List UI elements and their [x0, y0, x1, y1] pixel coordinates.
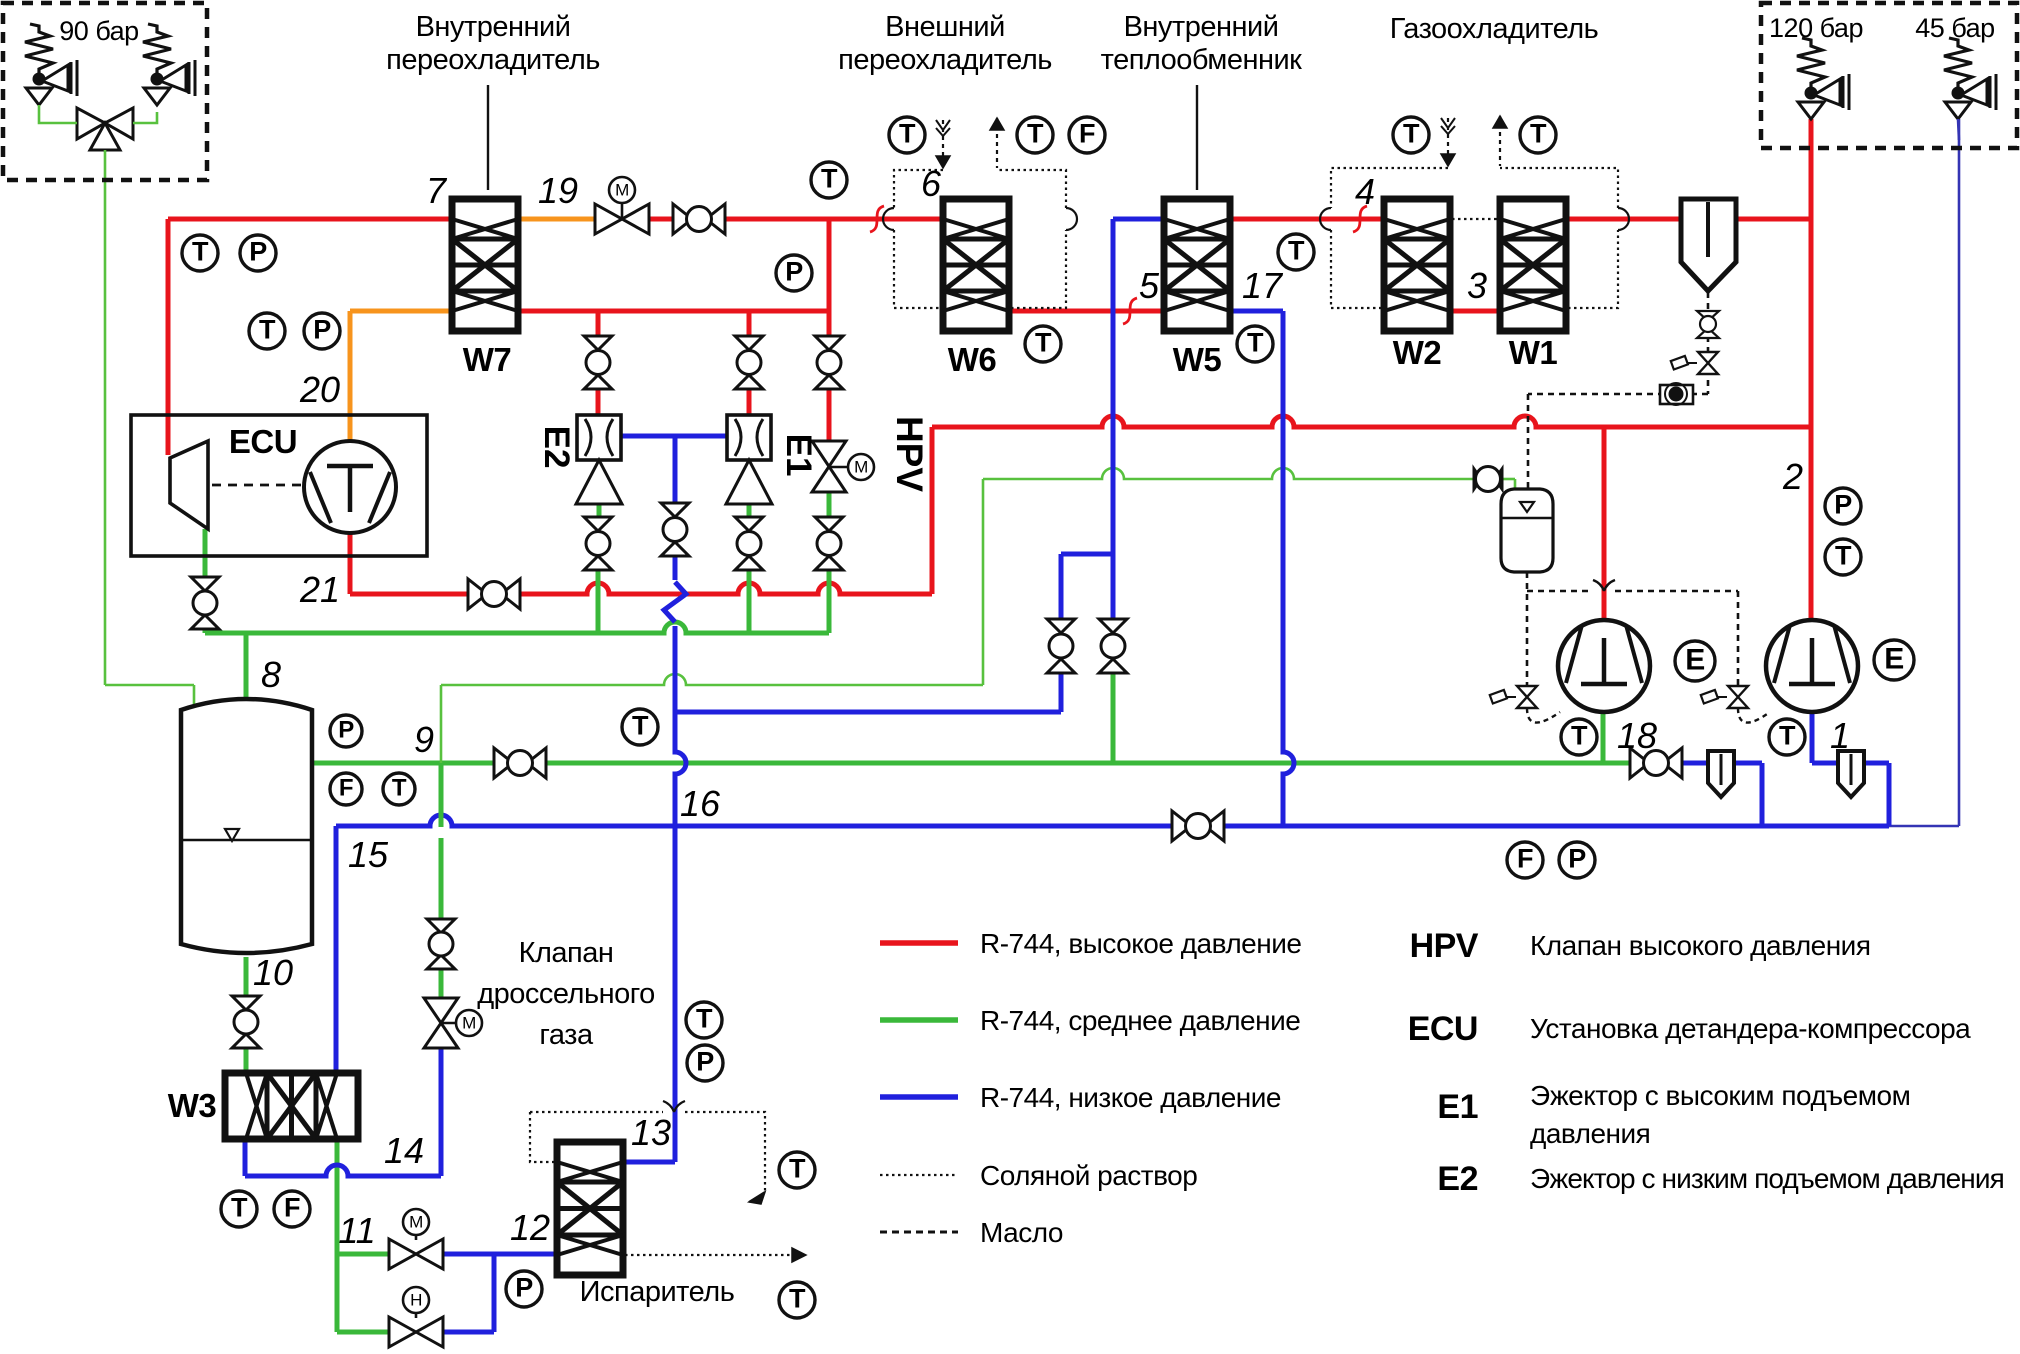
valve small thin-green to reservoir: [1474, 467, 1502, 492]
dashed box 90 bar: [3, 3, 207, 180]
svg-text:F: F: [284, 1193, 300, 1223]
wire blue 16 vertical: [623, 556, 686, 1162]
svg-text:P: P: [1568, 844, 1586, 874]
evaporator heat exchanger: [557, 1142, 623, 1275]
oil dashed to reservoir: [1527, 394, 1530, 492]
svg-text:газа: газа: [539, 1019, 594, 1051]
svg-text:P: P: [1834, 490, 1852, 520]
svg-text:T: T: [1779, 721, 1796, 751]
valve ball above HPV: [815, 336, 843, 389]
svg-text:T: T: [192, 237, 209, 267]
svg-text:E: E: [1884, 642, 1904, 675]
wire red 21 from ECU: [350, 427, 932, 594]
svg-text:M: M: [854, 458, 868, 477]
instrument T F W6 brine right: [1017, 117, 1105, 153]
instrument F P suction main: [1507, 842, 1595, 878]
valve ball below E1: [735, 517, 763, 570]
brine dotted evaporator inlet: [530, 1101, 765, 1204]
node 12: [510, 1207, 550, 1248]
instrument T P node 20: [249, 313, 340, 349]
instrument P riser: [776, 255, 812, 291]
wire blue 15 to W3: [334, 826, 339, 1073]
label W2: [1393, 334, 1442, 371]
wire green medium main y=633: [205, 622, 829, 633]
svg-text:E1: E1: [1437, 1088, 1478, 1126]
wire blue compressor 18 filter line: [1682, 763, 1762, 826]
svg-text:M: M: [615, 181, 629, 200]
wire red main high pressure y=427: [932, 416, 1811, 427]
svg-text:E2: E2: [1437, 1160, 1478, 1198]
title Внутренний переохладитель: [386, 11, 600, 190]
instrument T W5 right: [1278, 234, 1314, 270]
relief valve 45 bar: [1944, 38, 1996, 119]
valve ball x1061: [1047, 619, 1075, 673]
oil needle valve upper: [1671, 352, 1718, 374]
valve globe suction main: [1172, 811, 1224, 841]
svg-text:W7: W7: [463, 341, 512, 378]
svg-text:T: T: [1571, 721, 1588, 751]
svg-text:Клапан: Клапан: [519, 937, 614, 969]
legend green sample: [880, 1005, 1300, 1036]
svg-text:переохладитель: переохладитель: [386, 44, 600, 76]
brine dotted between W2 and W1: [1452, 218, 1499, 220]
svg-text:T: T: [1027, 119, 1044, 149]
legend brine sample: [880, 1160, 1197, 1191]
wire green W3 to expansion valves 11: [337, 1139, 390, 1332]
svg-text:15: 15: [348, 834, 389, 875]
svg-text:19: 19: [538, 170, 578, 211]
svg-text:T: T: [632, 711, 649, 741]
svg-text:Газоохладитель: Газоохладитель: [1390, 13, 1599, 45]
node 14: [384, 1130, 424, 1171]
svg-text:P: P: [249, 237, 267, 267]
svg-text:M: M: [462, 1014, 476, 1033]
svg-text:R-744, низкое давление: R-744, низкое давление: [980, 1082, 1281, 1113]
brine arrow into gas cooler: [1441, 118, 1455, 166]
node 4: [1355, 171, 1375, 212]
title Испаритель: [580, 1276, 735, 1308]
instrument T line 16: [622, 709, 658, 745]
svg-text:4: 4: [1355, 171, 1375, 212]
wire green below valve x1113: [1111, 673, 1116, 763]
valve hand H 11: [389, 1287, 443, 1347]
svg-text:R-744, высокое давление: R-744, высокое давление: [980, 928, 1301, 959]
suction filter compressor 1: [1838, 751, 1864, 797]
legend oil sample: [880, 1217, 1063, 1248]
wire blue thin 45 bar relief line: [1889, 119, 1959, 826]
brine arrow into W6: [936, 120, 950, 168]
svg-text:T: T: [789, 1284, 806, 1314]
wire red compressor 18 discharge: [1602, 427, 1607, 620]
receiver tank 8: [181, 699, 312, 953]
node 11: [338, 1210, 375, 1251]
oil dashed into compressor 18: [1527, 708, 1560, 723]
svg-text:6: 6: [921, 163, 942, 204]
svg-text:14: 14: [384, 1130, 424, 1171]
valve globe line 9: [494, 748, 546, 778]
legend E2: [1437, 1160, 2003, 1198]
instrument T brine evaporator lower: [779, 1282, 815, 1318]
instrument T W5 below: [1237, 326, 1273, 362]
oil reservoir vessel: [1501, 489, 1553, 572]
svg-text:Внутренний: Внутренний: [1124, 11, 1279, 43]
instrument T gas cooler brine right: [1520, 117, 1556, 153]
instrument T brine evaporator upper: [779, 1152, 815, 1188]
svg-text:9: 9: [414, 719, 434, 760]
instrument T P line 13: [686, 1002, 723, 1081]
svg-text:H: H: [410, 1291, 422, 1310]
svg-text:T: T: [1835, 541, 1852, 571]
brine dotted loop around gas cooler W2 W1: [1320, 168, 1629, 308]
ejector E2: [576, 415, 622, 504]
instrument P evaporator inlet: [506, 1271, 542, 1307]
node 13: [631, 1112, 671, 1153]
heat exchanger W1: [1500, 199, 1566, 331]
oil dashed into compressor 1: [1738, 708, 1770, 723]
node 16: [680, 783, 721, 824]
relief valve 120 bar: [1797, 38, 1849, 119]
wire thin green oil return to reservoir: [441, 468, 1515, 763]
svg-text:Установка детандера-компрессор: Установка детандера-компрессора: [1530, 1013, 1971, 1044]
pipe break on red line 5: [1123, 298, 1137, 324]
instrument T on line 19: [811, 162, 847, 198]
valve ball blue x675: [661, 503, 689, 556]
heat exchanger W2: [1384, 199, 1450, 331]
valve globe before filter 18: [1630, 748, 1682, 778]
svg-text:Эжектор с высоким подъемом: Эжектор с высоким подъемом: [1530, 1080, 1910, 1111]
wire red riser E2: [596, 311, 601, 415]
node 10: [253, 952, 293, 993]
svg-text:P: P: [338, 717, 354, 744]
svg-text:W5: W5: [1173, 341, 1222, 378]
svg-text:W6: W6: [948, 341, 997, 378]
oil separator: [1681, 199, 1736, 291]
valve motor M on line 19: [595, 177, 649, 234]
oil small ball valve: [1697, 311, 1719, 338]
svg-text:P: P: [696, 1047, 714, 1077]
svg-text:120 бар: 120 бар: [1769, 13, 1863, 43]
svg-text:F: F: [339, 775, 353, 802]
svg-text:T: T: [1247, 328, 1264, 358]
label 90 bar: [59, 16, 138, 46]
wire green HPV outlet: [827, 492, 832, 633]
svg-text:10: 10: [253, 952, 293, 993]
oil level regulator: [1660, 383, 1693, 405]
wire green 9 branch to throttle: [439, 763, 444, 998]
svg-text:P: P: [515, 1273, 533, 1303]
svg-text:3: 3: [1467, 265, 1487, 306]
svg-text:7: 7: [426, 170, 448, 211]
svg-text:переохладитель: переохладитель: [838, 44, 1052, 76]
node 5: [1139, 265, 1160, 306]
svg-text:21: 21: [299, 569, 340, 610]
wire green ECU expander outlet: [203, 529, 208, 633]
svg-text:T: T: [1530, 119, 1547, 149]
svg-text:T: T: [259, 315, 276, 345]
wire green 10 tank bottom to W3: [244, 957, 249, 1073]
svg-text:P: P: [785, 257, 803, 287]
suction filter compressor 18: [1708, 751, 1734, 797]
svg-text:Внутренний: Внутренний: [416, 11, 571, 43]
svg-text:18: 18: [1617, 715, 1657, 756]
svg-text:W1: W1: [1509, 334, 1558, 371]
wire green E1 outlet: [747, 504, 752, 633]
svg-text:Клапан высокого давления: Клапан высокого давления: [1530, 930, 1871, 961]
svg-text:E1: E1: [779, 434, 818, 477]
svg-text:Соляной раствор: Соляной раствор: [980, 1160, 1197, 1191]
label E2 rotated: [537, 426, 576, 469]
ejector E1: [726, 415, 772, 504]
instrument T W6 brine left: [889, 117, 925, 153]
title Внешний переохладитель: [838, 11, 1052, 76]
pipe break on red line 19: [870, 206, 884, 232]
brine dotted loop around W6: [883, 170, 1077, 308]
valve ball tank bottom 10: [232, 996, 260, 1048]
svg-text:16: 16: [680, 783, 721, 824]
label W1: [1509, 334, 1558, 371]
oil dashed separator drain: [1528, 292, 1708, 394]
valve ball x1113: [1099, 619, 1127, 673]
relief valve 90 bar right: [143, 24, 195, 105]
wire red 3 W2 to W1: [1450, 309, 1501, 314]
wire red W7 bottom to HPV riser: [517, 219, 829, 311]
node 8: [261, 654, 281, 695]
svg-text:45 бар: 45 бар: [1915, 13, 1994, 43]
wire blue suction main y=826: [336, 815, 1889, 826]
svg-text:11: 11: [338, 1210, 375, 1251]
oil needle valve compressor 18: [1490, 686, 1537, 708]
svg-text:12: 12: [510, 1207, 550, 1248]
legend blue sample: [880, 1082, 1281, 1113]
label E1 rotated: [779, 434, 818, 477]
svg-text:E: E: [1685, 643, 1705, 676]
instrument T P upper left: [182, 235, 276, 271]
node 18: [1617, 715, 1657, 756]
svg-text:20: 20: [299, 369, 340, 410]
svg-text:T: T: [1288, 236, 1305, 266]
svg-text:Эжектор с низким подъемом давл: Эжектор с низким подъемом давления: [1530, 1163, 2004, 1194]
wire blue valve bypass x1061: [675, 554, 1113, 712]
oil dashed reservoir to compressors: [1527, 572, 1738, 686]
node 17: [1242, 265, 1284, 306]
wire blue 14 W3 to throttle valve: [245, 1048, 441, 1176]
instrument P tank: [330, 715, 362, 747]
label 45 bar: [1915, 13, 1994, 43]
wire green node 8 to tank: [244, 633, 249, 704]
legend E1: [1437, 1080, 1910, 1149]
svg-text:T: T: [1035, 328, 1052, 358]
label W6: [948, 341, 997, 378]
svg-text:T: T: [899, 119, 916, 149]
valve ball ECU green: [191, 577, 219, 629]
svg-text:Испаритель: Испаритель: [580, 1276, 735, 1308]
instrument T F W3: [221, 1191, 310, 1227]
svg-text:T: T: [392, 775, 407, 802]
node 19: [538, 170, 578, 211]
valve globe on line 19: [673, 204, 725, 234]
valve ball above E2: [584, 336, 612, 389]
wire green from 90 bar relief box: [105, 151, 194, 708]
node 9: [414, 719, 434, 760]
relief valve 90 bar left: [25, 24, 77, 105]
oil needle valve compressor 1: [1701, 686, 1748, 708]
instrument T gas cooler brine left: [1393, 117, 1429, 153]
svg-text:13: 13: [631, 1112, 671, 1153]
label ECU: [229, 423, 297, 460]
instrument T compressor 1: [1769, 719, 1805, 755]
wire red 5 W6 to W5: [1009, 309, 1164, 314]
wire red riser E1: [747, 311, 752, 415]
instrument E compressor 1: [1874, 640, 1914, 680]
svg-text:17: 17: [1242, 265, 1284, 306]
valve ball below HPV: [815, 517, 843, 570]
wire blue W5 top left: [1113, 219, 1164, 619]
node 1: [1830, 715, 1850, 756]
svg-text:HPV: HPV: [889, 416, 930, 492]
wire red vertical compressor 1 discharge / relief 120: [1809, 119, 1814, 620]
svg-text:8: 8: [261, 654, 281, 695]
node 2: [1782, 456, 1803, 497]
svg-text:F: F: [1517, 844, 1533, 874]
svg-text:давления: давления: [1530, 1118, 1650, 1149]
legend ECU: [1408, 1010, 1971, 1048]
three-way valve 90 bar: [39, 105, 157, 152]
label HPV rotated: [889, 416, 930, 492]
node 20: [299, 369, 340, 410]
dashed box 120 45 bar: [1761, 3, 2017, 148]
svg-text:T: T: [821, 164, 838, 194]
wire green 9 tank to compressor 18: [312, 761, 1630, 766]
node 15: [348, 834, 389, 875]
pipe break on red line 4: [1353, 206, 1367, 232]
wire blue 12 to evaporator: [441, 1254, 556, 1332]
svg-text:5: 5: [1139, 265, 1160, 306]
title Газоохладитель: [1390, 13, 1599, 45]
svg-text:T: T: [696, 1004, 713, 1034]
wire blue 17 W5 to suction main: [1231, 311, 1294, 826]
title Внутренний теплообменник: [1101, 11, 1303, 190]
wire blue ejector suction E2-E1: [621, 436, 726, 503]
svg-text:90 бар: 90 бар: [59, 16, 138, 46]
wire red riser HPV: [827, 311, 832, 441]
wire red W1 to oil separator to node 2 riser: [1566, 217, 1811, 222]
svg-text:Внешний: Внешний: [885, 11, 1005, 43]
instrument P T node 2: [1825, 488, 1861, 575]
svg-text:R-744, среднее давление: R-744, среднее давление: [980, 1005, 1300, 1036]
svg-text:T: T: [1403, 119, 1420, 149]
svg-text:1: 1: [1830, 715, 1850, 756]
label W5: [1173, 341, 1222, 378]
svg-text:дроссельного: дроссельного: [477, 978, 655, 1010]
wire red W7 feed from node 7 left: [168, 219, 453, 455]
wire orange 20 W7 to ECU: [350, 311, 453, 444]
instrument F T tank: [330, 773, 415, 805]
node 6: [921, 163, 942, 204]
valve HPV motorized: [812, 441, 874, 492]
compressor 1: [1766, 620, 1858, 712]
svg-text:T: T: [789, 1154, 806, 1184]
svg-text:теплообменник: теплообменник: [1101, 44, 1303, 76]
valve expansion M 11: [389, 1209, 443, 1269]
heat exchanger W3: [225, 1073, 358, 1139]
node 7: [426, 170, 448, 211]
wire green compressor 18 suction: [1601, 711, 1606, 763]
svg-text:P: P: [313, 315, 331, 345]
heat exchanger W7: [452, 199, 518, 331]
node 3: [1467, 265, 1487, 306]
ECU expander: [170, 441, 208, 529]
label W3: [168, 1087, 217, 1124]
valve globe line 21: [468, 579, 520, 609]
ECU compressor: [304, 441, 396, 533]
svg-text:Масло: Масло: [980, 1217, 1063, 1248]
label W7: [463, 341, 512, 378]
valve ball line 9 branch: [427, 919, 455, 969]
valve ball above E1: [735, 336, 763, 389]
valve ball below E2: [584, 517, 612, 570]
svg-text:W3: W3: [168, 1087, 217, 1124]
ECU shaft dashed: [212, 484, 302, 487]
label 120 bar: [1769, 13, 1863, 43]
legend red sample: [880, 928, 1301, 959]
heat exchanger W5: [1164, 199, 1230, 331]
svg-text:HPV: HPV: [1410, 927, 1479, 965]
legend HPV: [1410, 927, 1871, 965]
svg-text:2: 2: [1782, 456, 1803, 497]
title Клапан дроссельного газа: [477, 937, 655, 1051]
wire green E2 outlet: [598, 504, 599, 633]
svg-text:F: F: [1079, 119, 1095, 149]
brine dotted evaporator outlet: [625, 1248, 806, 1262]
svg-text:M: M: [409, 1213, 423, 1232]
svg-text:W2: W2: [1393, 334, 1442, 371]
wire orange 19 W7 outlet: [517, 217, 596, 222]
svg-text:T: T: [231, 1193, 248, 1223]
node 21: [299, 569, 340, 610]
svg-text:ECU: ECU: [229, 423, 297, 460]
wire red 4 W5 to W2: [1231, 217, 1385, 222]
wire blue compressor 1 suction: [1812, 712, 1889, 826]
ECU box: [131, 415, 427, 556]
brine arrow out of gas cooler: [1493, 116, 1507, 166]
instrument T W6 outlet: [1025, 326, 1061, 362]
wire blue 45 bar stub: [1958, 119, 1959, 140]
brine arrow out of W6: [990, 118, 1004, 168]
heat exchanger W6: [943, 199, 1009, 331]
instrument E compressor 18: [1675, 641, 1715, 681]
compressor 18: [1558, 620, 1650, 712]
instrument T compressor 18: [1561, 719, 1597, 755]
wire red 19 to W6: [648, 217, 943, 222]
valve throttle motorized 15: [424, 998, 482, 1048]
svg-text:E2: E2: [537, 426, 576, 469]
svg-text:ECU: ECU: [1408, 1010, 1478, 1048]
